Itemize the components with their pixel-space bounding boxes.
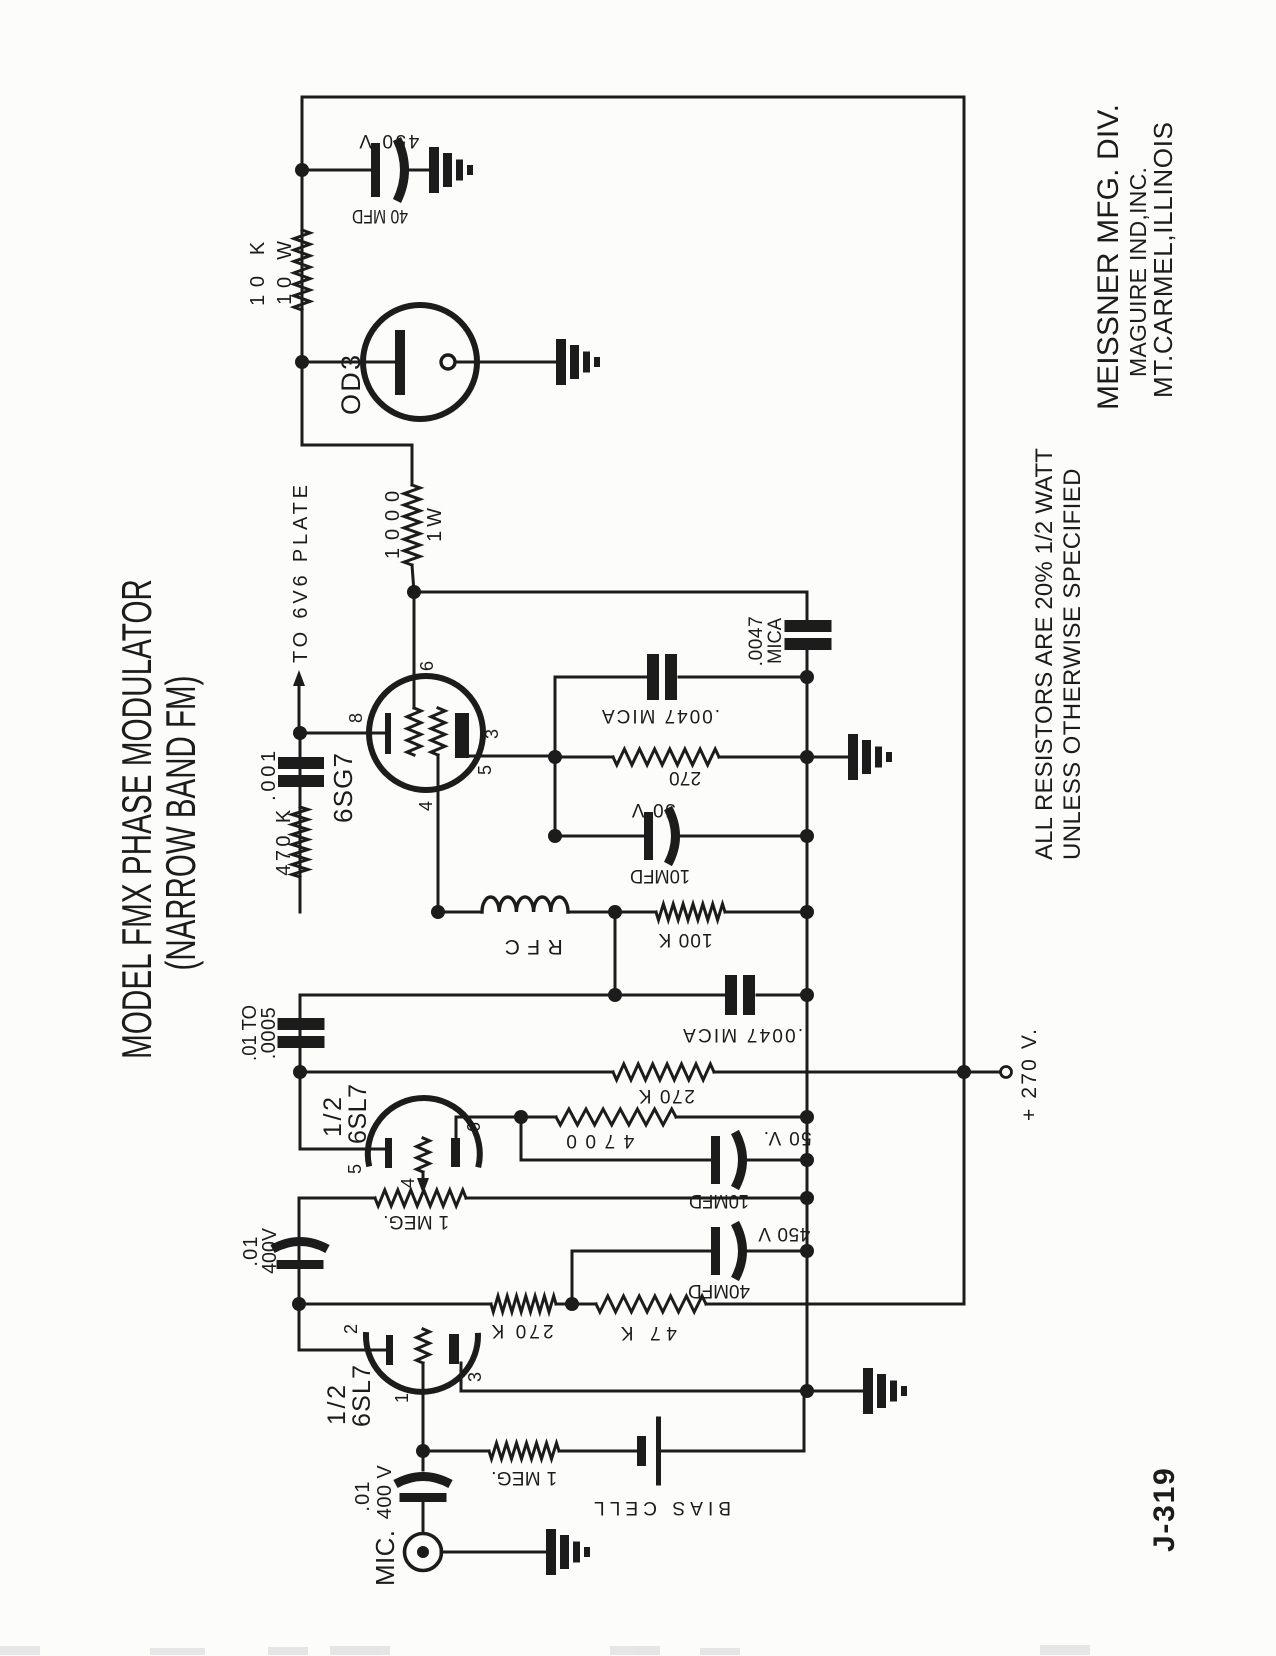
svg-text:3: 3 <box>465 1372 485 1382</box>
node plate/tank <box>548 750 562 764</box>
6SG7 plate bar <box>455 713 469 758</box>
node 270 at bus <box>800 750 814 764</box>
svg-text:4700: 4700 <box>558 1130 635 1151</box>
svg-text:270 K: 270 K <box>488 1320 553 1341</box>
svg-text:6SL7: 6SL7 <box>348 1364 376 1427</box>
resistor 1000 1W <box>404 485 420 565</box>
svg-text:+ 270 V.: + 270 V. <box>1018 1027 1041 1121</box>
capacitor 10MFD 50V (cathode) <box>555 835 645 838</box>
svg-text:.01: .01 <box>352 1480 374 1511</box>
capacitor .0047 MICA (grid) <box>725 975 737 1015</box>
wire tank top <box>554 677 557 836</box>
tube 1/2 6SL7 (first) <box>368 1098 480 1167</box>
svg-text:6: 6 <box>464 1122 484 1132</box>
svg-text:6SG7: 6SG7 <box>328 752 358 823</box>
resistor 270 K <box>491 1296 556 1312</box>
resistor 100K <box>656 904 725 920</box>
node 40MFD at bus <box>800 1244 814 1258</box>
resistor 47 K <box>596 1296 706 1312</box>
svg-text:1 MEG.: 1 MEG. <box>383 1211 449 1232</box>
svg-text:6SL7: 6SL7 <box>344 1083 372 1144</box>
wire 6SL7b grid rail <box>298 1198 301 1350</box>
wire 6SG7 plate lead <box>462 755 555 758</box>
svg-text:47 K: 47 K <box>615 1322 677 1343</box>
wire 1000 ohm to plate node <box>412 565 414 592</box>
wire jog to 1000 ohm <box>302 445 412 485</box>
wire cathode bus <box>806 650 809 1391</box>
svg-text:5: 5 <box>345 1164 365 1174</box>
svg-text:10 K: 10 K <box>247 234 269 306</box>
svg-text:1W: 1W <box>424 504 446 542</box>
connector MIC jack <box>405 1534 442 1571</box>
capacitor 40MFD 450V (regulator filter) <box>371 143 380 197</box>
resistor 1 MEG. (cathode pot) <box>299 1197 375 1200</box>
wire pin8 lead <box>300 732 385 735</box>
svg-text:1000: 1000 <box>382 483 404 559</box>
node B+ / 40MFD junction <box>295 163 309 177</box>
6SL7a plate bar <box>451 1138 460 1167</box>
node 100K at bus <box>800 905 814 919</box>
capacitor .01 400V (mic coupling) <box>422 1451 425 1470</box>
svg-text:450 V: 450 V <box>758 1223 811 1244</box>
svg-text:.0047 MICA: .0047 MICA <box>600 705 720 726</box>
ground at bus left <box>863 1368 873 1414</box>
svg-text:ALL RESISTORS ARE 20% 1/2 WATT: ALL RESISTORS ARE 20% 1/2 WATT <box>1031 448 1058 860</box>
svg-text:400 V: 400 V <box>374 1465 396 1520</box>
svg-text:MT.CARMEL,ILLINOIS: MT.CARMEL,ILLINOIS <box>1148 121 1178 398</box>
battery BIAS CELL <box>637 1436 646 1466</box>
capacitor 10MFD 50V. (6SL7a cathode) <box>521 1159 712 1162</box>
wire plate node down to coupling cap <box>414 592 807 621</box>
svg-text:BIAS CELL: BIAS CELL <box>589 1497 731 1518</box>
svg-text:2: 2 <box>341 1324 361 1334</box>
inductor RFC <box>482 897 568 912</box>
svg-text:(NARROW BAND FM): (NARROW BAND FM) <box>157 676 204 971</box>
wire mic to ground <box>441 1551 546 1554</box>
wire mic to cap <box>422 1502 425 1533</box>
node 270K/47K/40MFD <box>556 1303 596 1306</box>
node tank cap at bus <box>800 670 814 684</box>
resistor 470K <box>292 807 308 877</box>
svg-text:10 W: 10 W <box>274 235 296 305</box>
svg-text:40MFD: 40MFD <box>688 1280 750 1301</box>
wire 40MFD branch <box>302 169 372 172</box>
svg-text:100 K: 100 K <box>657 929 712 950</box>
ground at 270 <box>848 734 858 780</box>
wiper arrow to 1 MEG <box>422 1172 425 1178</box>
wire 6SG7 pin6 to plate node <box>413 592 416 708</box>
svg-text:6: 6 <box>417 661 437 671</box>
svg-text:10MFD: 10MFD <box>689 1191 749 1212</box>
node RFC bottom <box>608 905 622 919</box>
resistor 270K (B+ feed) <box>300 1071 613 1074</box>
wire 40MFD decoupling branch <box>572 1251 712 1304</box>
6SG7 control grid zigzag <box>431 708 445 755</box>
wire 6SL7b grid lead <box>299 1349 386 1352</box>
resistor 270 <box>555 756 613 759</box>
node plate/4700 <box>514 1110 528 1124</box>
svg-text:MICA: MICA <box>764 617 785 663</box>
node bus left end <box>800 1384 814 1398</box>
svg-text:.0047 MICA: .0047 MICA <box>681 1024 803 1045</box>
svg-text:3: 3 <box>482 729 502 739</box>
node 10MFD tank top <box>548 829 562 843</box>
terminal +270V <box>964 1071 1000 1074</box>
svg-text:400V: 400V <box>259 1227 281 1274</box>
6SL7a grid bar <box>385 1138 392 1168</box>
wire 270K/47K branch <box>299 1303 491 1306</box>
node 47K/270K feed <box>292 1297 306 1311</box>
node 4700 at bus <box>800 1110 814 1124</box>
node plate rail / 270K feed <box>293 1065 307 1079</box>
svg-text:1/2: 1/2 <box>323 1382 351 1425</box>
wire bias cell to bus <box>661 1391 804 1451</box>
wire 47K to +270 bus <box>706 1303 964 1306</box>
node 270K at +270 bus <box>957 1065 971 1079</box>
resistor 4700 <box>521 1116 556 1119</box>
svg-text:OD3: OD3 <box>336 353 366 415</box>
faint print-through marks at page bottom edge <box>0 1645 1090 1655</box>
svg-text:MEISSNER MFG. DIV.: MEISSNER MFG. DIV. <box>1092 104 1125 410</box>
svg-text:450 V: 450 V <box>357 130 420 151</box>
wire 6SG7 grid rail (470K/.001) <box>299 733 302 912</box>
wire coupling cap to bus <box>806 650 809 677</box>
6SL7b cathode zigzag <box>417 1329 430 1363</box>
ground at 40MFD <box>429 147 439 193</box>
wire 6SL7b plate lead (pin 3) <box>461 1363 807 1391</box>
6SL7b plate bar <box>449 1334 459 1364</box>
svg-text:270 K: 270 K <box>637 1085 695 1106</box>
svg-text:.0005: .0005 <box>258 1007 280 1060</box>
svg-text:1: 1 <box>392 1393 412 1403</box>
wire jog at 615 <box>614 912 617 995</box>
ground at OD3 <box>556 339 566 385</box>
svg-text:50 V: 50 V <box>630 799 676 820</box>
capacitor .01 TO .0005 <box>278 1036 325 1048</box>
svg-text:470 K: 470 K <box>273 806 295 875</box>
svg-text:J-319: J-319 <box>1148 1467 1181 1552</box>
svg-text:.001: .001 <box>258 747 280 801</box>
node 10MFD at bus <box>800 829 814 843</box>
arrow TO 6V6 PLATE <box>298 686 301 733</box>
wire OD3 anode lead <box>302 361 396 364</box>
6SL7b grid bar <box>386 1335 393 1365</box>
tube 1/2 6SL7 (second) <box>366 1332 478 1392</box>
svg-text:5: 5 <box>475 765 495 775</box>
capacitor .001 <box>278 775 324 787</box>
6SL7a cathode zigzag <box>417 1138 430 1172</box>
svg-text:8: 8 <box>346 713 366 723</box>
node 6SG7 screen/plate supply <box>407 585 421 599</box>
node grid tank top <box>431 905 445 919</box>
svg-text:1/2: 1/2 <box>319 1094 347 1137</box>
svg-text:UNLESS OTHERWISE SPECIFIED: UNLESS OTHERWISE SPECIFIED <box>1059 468 1086 860</box>
svg-text:MODEL FMX PHASE MODULATOR: MODEL FMX PHASE MODULATOR <box>113 579 160 1059</box>
wire 6SL7a plate rail <box>299 995 302 1149</box>
wire 6SL7a grid lead <box>300 1148 385 1151</box>
svg-text:270: 270 <box>669 767 701 788</box>
wire top B+ rail <box>302 97 964 445</box>
node 6SG7 grid rail / pin8 <box>293 726 307 740</box>
wire jog to 10MFD <box>520 1117 523 1160</box>
svg-text:TO 6V6 PLATE: TO 6V6 PLATE <box>290 481 312 663</box>
wire 6SL7b cathode lead <box>422 1363 425 1451</box>
resistor 1 MEG. (grid) <box>423 1450 489 1453</box>
wire .0047 branch <box>300 994 725 997</box>
svg-text:50 V.: 50 V. <box>762 1127 811 1148</box>
ground at mic <box>546 1529 556 1575</box>
node 1MEG at bus <box>800 1191 814 1205</box>
capacitor .0047 MICA (plate coupling) <box>785 638 832 650</box>
svg-text:RFC: RFC <box>497 935 562 958</box>
wire 6SL7a plate lead <box>456 1117 521 1140</box>
wire 6SG7 grid lead to tank <box>437 755 440 912</box>
capacitor .0047 MICA (plate tank) <box>555 676 647 679</box>
node .0047 at bus <box>800 988 814 1002</box>
node .0047 branch top <box>608 988 622 1002</box>
wire to ground at bus left <box>807 1390 863 1393</box>
capacitor .01 400V (interstage) <box>277 1260 324 1269</box>
capacitor 40MFD 450V (decoupling) <box>711 1227 720 1275</box>
tube OD3 voltage regulator <box>363 305 477 419</box>
wire +270V bus <box>963 97 966 1304</box>
resistor 10K 10W <box>294 230 310 310</box>
6SG7 screen grid zigzag <box>407 708 421 755</box>
svg-text:10MFD: 10MFD <box>630 866 690 887</box>
svg-text:1 MEG.: 1 MEG. <box>491 1467 557 1488</box>
wire OD3 cathode lead <box>455 361 556 364</box>
svg-text:MIC.: MIC. <box>370 1530 400 1586</box>
node B+ / OD3 junction <box>295 355 309 369</box>
svg-text:4: 4 <box>416 801 436 811</box>
svg-text:4: 4 <box>398 1178 418 1188</box>
node 10MFD at bus <box>800 1153 814 1167</box>
node grid/mic junction <box>416 1444 430 1458</box>
svg-text:40 MFD: 40 MFD <box>352 206 408 228</box>
tube 6SG7 <box>369 676 483 790</box>
